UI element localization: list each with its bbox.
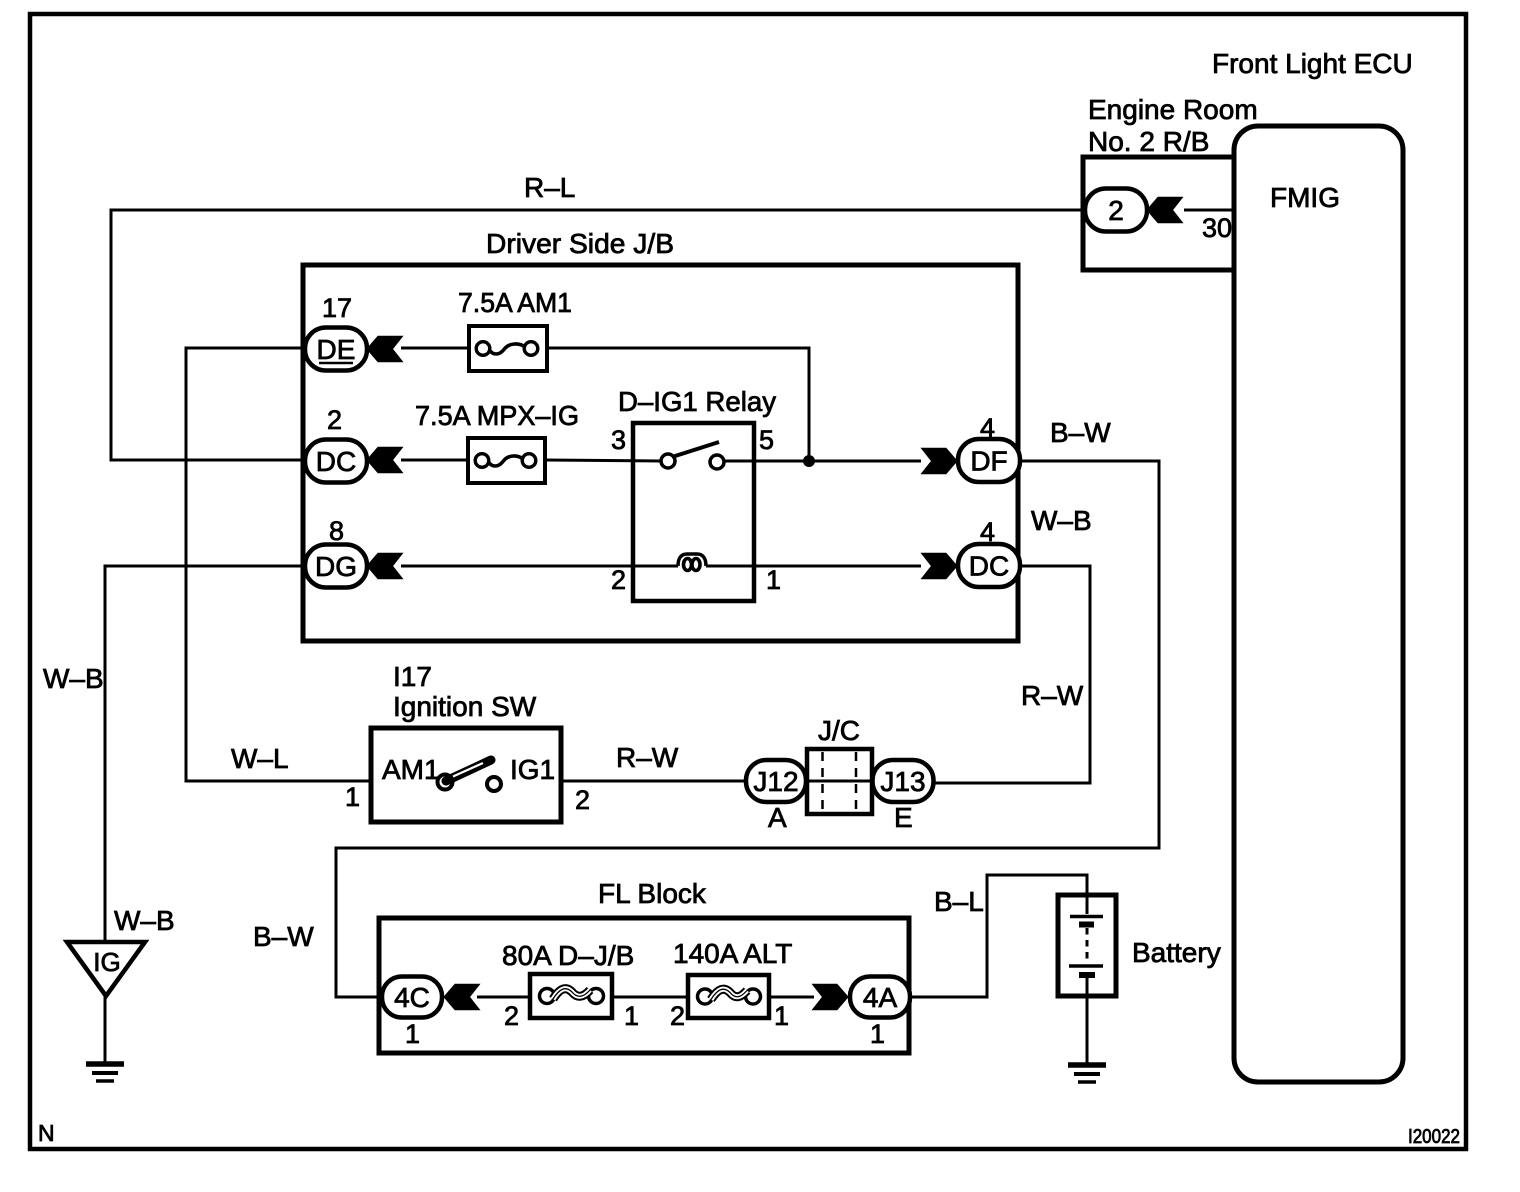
svg-text:A: A bbox=[768, 802, 787, 833]
connector DG pin 8 bbox=[305, 545, 367, 588]
svg-text:J12: J12 bbox=[753, 766, 798, 797]
wire R-L: from Engine Room R/B connector 2 left to DC bbox=[111, 210, 1085, 460]
svg-text:17: 17 bbox=[322, 293, 352, 323]
Front Light ECU / FMIG rounded box bbox=[1234, 126, 1403, 1082]
svg-text:4: 4 bbox=[980, 517, 995, 547]
wire: DE to ignition switch AM1 pin 1 bbox=[186, 348, 371, 781]
wire W-B / R-W: right DC down to J13 bbox=[934, 566, 1090, 783]
wire: DG arrow to relay coil pin 2 bbox=[401, 565, 678, 568]
svg-text:1: 1 bbox=[766, 565, 781, 595]
svg-text:8: 8 bbox=[329, 516, 344, 546]
FL Block box bbox=[379, 918, 909, 1053]
junction connector J12 bbox=[746, 760, 806, 802]
arrow into DC bbox=[367, 447, 403, 473]
relay switch lever bbox=[672, 442, 719, 457]
svg-text:5: 5 bbox=[759, 425, 774, 455]
fuse 7.5A AM1 bbox=[469, 326, 547, 371]
fusible link 80A D-J/B bbox=[530, 974, 612, 1018]
arrow into right DC bbox=[922, 553, 958, 579]
J/C dashed line 1 bbox=[821, 752, 824, 811]
svg-text:DE: DE bbox=[317, 334, 356, 365]
svg-text:No. 2 R/B: No. 2 R/B bbox=[1088, 126, 1209, 157]
fuse 7.5A MPX-IG bbox=[468, 438, 545, 483]
ground under IG bbox=[86, 1064, 124, 1081]
arrow into 4C bbox=[444, 984, 480, 1010]
svg-text:2: 2 bbox=[327, 405, 342, 435]
relay contact pin 3 bbox=[661, 454, 675, 468]
ignition switch I17 box bbox=[371, 728, 561, 822]
arrow into connector 2 bbox=[1147, 197, 1183, 223]
wire B-L: 4A right, up, to battery + bbox=[910, 875, 1087, 997]
wire: connector 2 arrow to FMIG pin 30 bbox=[1184, 209, 1234, 212]
wire: relay pin 5 to DF arrow bbox=[724, 460, 921, 463]
svg-text:1: 1 bbox=[405, 1019, 420, 1049]
svg-text:J/C: J/C bbox=[818, 715, 860, 746]
svg-text:2: 2 bbox=[1108, 195, 1124, 226]
svg-text:FL Block: FL Block bbox=[598, 878, 707, 909]
svg-text:B–W: B–W bbox=[1050, 417, 1111, 448]
wire: relay coil pin 1 to DC arrow bbox=[706, 565, 921, 568]
svg-text:N: N bbox=[38, 1120, 55, 1146]
wire: DG left to IG triangle bbox=[105, 566, 306, 941]
wire B-W: DF right, down, across, down to FL block 4C bbox=[336, 461, 1159, 997]
svg-text:Front Light ECU: Front Light ECU bbox=[1212, 48, 1413, 79]
svg-text:DG: DG bbox=[315, 551, 357, 582]
svg-text:7.5A MPX–IG: 7.5A MPX–IG bbox=[415, 400, 579, 431]
svg-text:W–B: W–B bbox=[114, 905, 175, 936]
wire: fuse MPX-IG to relay pin 3 bbox=[545, 460, 661, 461]
svg-text:J13: J13 bbox=[880, 766, 925, 797]
wire: ignition switch IG1 pin 2 to J12 bbox=[561, 780, 746, 783]
svg-text:DC: DC bbox=[316, 446, 356, 477]
relay D-IG1 box bbox=[633, 423, 754, 601]
relay contact pin 5 bbox=[710, 455, 724, 469]
svg-text:B–W: B–W bbox=[253, 921, 314, 952]
svg-text:E: E bbox=[894, 802, 913, 833]
arrow into DF bbox=[922, 448, 958, 474]
ignition switch lever bbox=[446, 760, 491, 781]
wire: DC arrow to fuse MPX-IG bbox=[401, 459, 468, 462]
connector DE pin 17 bbox=[305, 328, 367, 371]
svg-text:D–IG1 Relay: D–IG1 Relay bbox=[618, 386, 776, 417]
svg-text:IG: IG bbox=[93, 947, 120, 977]
connector DF pin 4 bbox=[958, 439, 1020, 482]
svg-text:2: 2 bbox=[575, 785, 590, 815]
wire: fuse 140A to 4A arrow bbox=[769, 996, 814, 999]
svg-text:IG1: IG1 bbox=[510, 754, 555, 785]
svg-text:4C: 4C bbox=[394, 982, 430, 1013]
wire: between FL fuses bbox=[612, 996, 688, 999]
ignition contact IG1 bbox=[487, 777, 501, 791]
wire: DE arrow to fuse AM1 bbox=[401, 347, 469, 350]
svg-text:R–W: R–W bbox=[616, 742, 679, 773]
J/C dashed line 2 bbox=[855, 752, 858, 811]
ground under battery bbox=[1068, 1065, 1106, 1082]
svg-text:1: 1 bbox=[774, 1001, 789, 1031]
svg-text:1: 1 bbox=[870, 1019, 885, 1049]
svg-text:Battery: Battery bbox=[1132, 937, 1221, 968]
svg-text:DF: DF bbox=[970, 446, 1007, 477]
IG triangle ground symbol bbox=[67, 942, 145, 996]
connector 2 engine room R/B bbox=[1085, 189, 1147, 232]
relay coil bbox=[678, 554, 706, 566]
svg-text:80A D–J/B: 80A D–J/B bbox=[502, 940, 634, 971]
connector 4A bbox=[850, 977, 910, 1018]
svg-text:I17: I17 bbox=[393, 661, 432, 692]
connector DC pin 4 right bbox=[958, 544, 1020, 587]
svg-text:W–L: W–L bbox=[231, 743, 289, 774]
svg-text:R–L: R–L bbox=[524, 172, 575, 203]
connector DC pin 2 bbox=[305, 440, 367, 483]
battery bbox=[1058, 895, 1116, 996]
junction node above relay pin 5 bbox=[803, 455, 815, 467]
junction connector J13 bbox=[873, 760, 934, 802]
wire: battery negative to ground bbox=[1086, 978, 1089, 1063]
svg-text:Driver Side J/B: Driver Side J/B bbox=[486, 228, 674, 259]
svg-text:I20022: I20022 bbox=[1408, 1126, 1460, 1148]
connector 4C bbox=[382, 977, 442, 1018]
arrow into DG bbox=[367, 553, 403, 579]
svg-text:FMIG: FMIG bbox=[1270, 182, 1340, 213]
arrow into DE bbox=[367, 336, 403, 362]
Engine Room No.2 R/B box bbox=[1083, 157, 1236, 270]
svg-text:Ignition SW: Ignition SW bbox=[393, 691, 537, 722]
svg-text:DC: DC bbox=[969, 551, 1009, 582]
svg-text:B–L: B–L bbox=[934, 886, 984, 917]
svg-text:140A ALT: 140A ALT bbox=[673, 938, 792, 969]
svg-text:R–W: R–W bbox=[1021, 680, 1084, 711]
svg-text:W–B: W–B bbox=[1031, 505, 1092, 536]
wire: 4C arrow to fuse 80A bbox=[477, 996, 530, 999]
svg-text:2: 2 bbox=[611, 565, 626, 595]
svg-text:1: 1 bbox=[624, 1001, 639, 1031]
svg-text:W–B: W–B bbox=[43, 663, 104, 694]
J/C junction connector box bbox=[807, 749, 872, 814]
svg-text:1: 1 bbox=[345, 782, 360, 812]
svg-text:4: 4 bbox=[980, 413, 995, 443]
svg-text:AM1: AM1 bbox=[382, 754, 440, 785]
wire: IG triangle to ground bbox=[104, 996, 107, 1063]
Driver Side J/B box bbox=[303, 265, 1018, 641]
svg-text:2: 2 bbox=[504, 1001, 519, 1031]
wire through J/C bbox=[804, 780, 875, 783]
svg-text:2: 2 bbox=[670, 1001, 685, 1031]
ignition contact AM1 bbox=[438, 775, 453, 790]
arrow into 4A bbox=[813, 984, 849, 1010]
svg-text:3: 3 bbox=[611, 425, 626, 455]
svg-text:4A: 4A bbox=[863, 982, 898, 1013]
svg-text:Engine Room: Engine Room bbox=[1088, 94, 1258, 125]
wire: fuse AM1 to junction above relay pin5 bbox=[547, 348, 809, 461]
svg-text:7.5A AM1: 7.5A AM1 bbox=[458, 287, 572, 318]
svg-text:30: 30 bbox=[1202, 213, 1232, 243]
fusible link 140A ALT bbox=[688, 975, 769, 1018]
